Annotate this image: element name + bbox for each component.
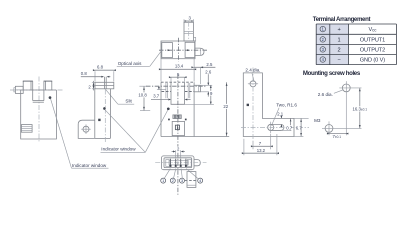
- view D dimension 0.7: [290, 118, 292, 130]
- view B small indicator square: [98, 119, 100, 121]
- view E terminal pins: [170, 159, 172, 165]
- view D hole centerline: [252, 68, 254, 142]
- view A lower-left terminal block: [21, 125, 32, 133]
- view B dimension 2: [93, 81, 95, 91]
- view A left tower: [22, 81, 24, 90]
- svg-text:3.7: 3.7: [153, 93, 160, 98]
- view C dimension 3.7 arrows: [151, 99, 168, 101]
- terminal number 3: [180, 178, 185, 183]
- leader to Indicator window label 1: [51, 99, 72, 168]
- mounting dimension 7: [329, 133, 346, 135]
- view F vertical centerline: [178, 38, 180, 62]
- leader terminal 4: [186, 169, 198, 179]
- svg-text:6.7: 6.7: [296, 125, 303, 130]
- view E right inner box: [187, 160, 191, 167]
- view F right square: [185, 42, 195, 57]
- svg-text:+: +: [337, 27, 340, 33]
- svg-text:6.8: 6.8: [97, 65, 104, 70]
- view F optical axis centerline: [159, 49, 207, 51]
- view C body outline: [160, 82, 162, 136]
- table row terminal 4: [320, 57, 326, 63]
- view F right stub: [195, 48, 204, 55]
- view B slit lines: [103, 77, 105, 89]
- svg-text:0.8: 0.8: [81, 71, 88, 76]
- view A right tower: [45, 81, 47, 90]
- view A indicator window dot: [49, 96, 52, 99]
- view C slot bottom extension line: [185, 103, 214, 105]
- view C terminal side dots: [168, 119, 170, 121]
- mounting bottom hole M3: [325, 124, 333, 132]
- view D top hole: [250, 81, 256, 87]
- svg-text:OUTPUT2: OUTPUT2: [360, 47, 385, 53]
- view B dimension 0.8: [81, 76, 103, 78]
- view E terminal cluster box: [169, 160, 188, 165]
- view F left optical arrow: [168, 49, 171, 51]
- view A left tab connector: [15, 86, 23, 93]
- view C dimension 9: [210, 85, 212, 104]
- view A slot: [32, 81, 34, 101]
- svg-text:GND (0 V): GND (0 V): [360, 58, 385, 64]
- mounting top hole 2.6 dia: [342, 84, 350, 92]
- svg-text:1: 1: [338, 37, 341, 43]
- svg-text:22: 22: [223, 104, 228, 109]
- svg-text:16.3±0.1: 16.3±0.1: [353, 107, 368, 112]
- view D obround slot: [268, 124, 284, 130]
- view E outer outline: [162, 156, 195, 170]
- view C slot: [171, 82, 185, 104]
- leader from view C dot to Indicator window label 2: [145, 110, 168, 152]
- terminal table: [316, 24, 348, 65]
- view F right optical arrow: [187, 49, 190, 51]
- leader terminal 2: [174, 169, 176, 178]
- table row terminal 3: [320, 47, 326, 53]
- svg-text:0.7: 0.7: [286, 125, 293, 130]
- dashed link terminal 3 to 4: [185, 180, 197, 182]
- view D dimension 6.7: [300, 118, 302, 136]
- svg-text:2.5: 2.5: [206, 62, 213, 67]
- svg-text:M3: M3: [314, 118, 321, 123]
- label Slit with leader: [106, 89, 118, 104]
- leader from view B dot to Indicator window label 2: [105, 110, 145, 153]
- optical axis centerline: [146, 85, 206, 87]
- view C tower hidden dashes: [162, 91, 171, 93]
- svg-text:Optical axis: Optical axis: [118, 61, 142, 66]
- view A horizontal centerline: [10, 89, 63, 91]
- dimension 10.8: [143, 86, 145, 110]
- svg-text:2.4 dia.: 2.4 dia.: [245, 68, 260, 73]
- table row terminal 1: [320, 26, 326, 32]
- svg-text:−: −: [337, 58, 340, 64]
- svg-text:Mounting screw holes: Mounting screw holes: [303, 70, 361, 77]
- svg-text:7±0.1: 7±0.1: [333, 134, 342, 139]
- view B top piece: [95, 82, 114, 89]
- leader terminal 3: [181, 169, 182, 178]
- view C dimension 2.5: [194, 66, 215, 68]
- view A vertical centerline: [38, 77, 40, 143]
- svg-text:10.8: 10.8: [138, 92, 147, 97]
- view D indicator square: [247, 104, 249, 106]
- view D body outline: [243, 73, 294, 137]
- view B mounting ear: [78, 120, 95, 138]
- view F main outline: [161, 41, 195, 59]
- view C dimension 22: [226, 82, 228, 136]
- view C dashed top edge: [161, 81, 194, 83]
- svg-text:13.2: 13.2: [257, 148, 266, 153]
- view E hanging connector outline: [187, 172, 196, 188]
- view F upper stub side step: [193, 37, 195, 41]
- leader terminal 1: [164, 169, 170, 179]
- view F dimension 3: [184, 20, 193, 22]
- terminal number 4: [198, 178, 203, 183]
- svg-text:Indicator window: Indicator window: [101, 147, 136, 152]
- view F upper stub centerline: [188, 22, 190, 41]
- view B vertical centerline: [104, 90, 106, 144]
- view D dimension 7: [253, 145, 271, 147]
- svg-text:2.1: 2.1: [277, 111, 284, 116]
- terminal number 1: [161, 178, 166, 183]
- table row terminal 2: [320, 37, 326, 43]
- view B ear hole: [83, 126, 89, 132]
- view C tower slit hidden lines: [165, 83, 167, 98]
- svg-text:Indicator window: Indicator window: [72, 163, 107, 168]
- label Indicator window 2: [101, 151, 146, 153]
- svg-text:13.4: 13.4: [175, 64, 184, 69]
- view E right stub: [194, 160, 200, 166]
- mounting dimension 16.3: [359, 88, 361, 128]
- view A body outline: [21, 90, 57, 139]
- terminal number 2: [170, 178, 175, 183]
- view C terminal hatch block: [173, 115, 181, 119]
- svg-text:Two, R1.6: Two, R1.6: [276, 103, 297, 108]
- svg-text:OUTPUT1: OUTPUT1: [360, 37, 385, 43]
- view B body: [94, 89, 96, 139]
- view F left square: [162, 43, 173, 58]
- view C vertical centerline: [177, 75, 179, 197]
- view E horizontal centerline: [155, 162, 206, 164]
- view C connector housing with square: [172, 121, 184, 135]
- view C dimension 13.4: [161, 68, 194, 70]
- view E inner outline: [164, 158, 192, 168]
- view C dimension 5 slot width: [171, 76, 185, 78]
- view D slot centerline: [241, 126, 309, 128]
- view D base top extension: [294, 117, 309, 119]
- dimension 3.7 down arrow: [158, 86, 160, 89]
- svg-text:2: 2: [338, 47, 341, 53]
- svg-text:2.6: 2.6: [205, 69, 212, 74]
- view F upper stub: [184, 22, 193, 41]
- view D dimension 13.2: [244, 152, 277, 154]
- svg-text:Slit: Slit: [125, 99, 132, 104]
- label Indicator window 1: [72, 167, 109, 169]
- svg-text:Vcc: Vcc: [368, 27, 377, 33]
- view C right protrusion: [194, 85, 200, 92]
- view B indicator window dot: [103, 107, 106, 110]
- svg-text:Terminal Arrangement: Terminal Arrangement: [313, 16, 371, 23]
- view E left inner box: [166, 160, 170, 167]
- view B dimension 6.8: [95, 69, 114, 71]
- view C indicator window dot: [167, 107, 170, 110]
- view E dimension 2: [175, 150, 177, 157]
- svg-text:2.6 dia.: 2.6 dia.: [318, 92, 333, 97]
